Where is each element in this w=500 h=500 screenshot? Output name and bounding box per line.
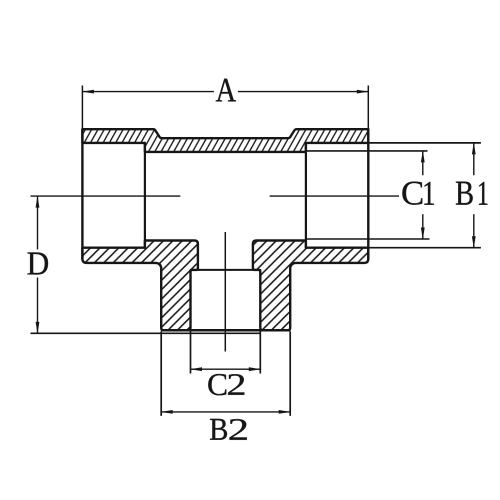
arrowhead D bottom xyxy=(36,322,40,334)
label C1-1 xyxy=(424,182,434,205)
D extension bottom xyxy=(31,332,261,334)
bottom end face xyxy=(162,329,289,332)
branch centerline xyxy=(224,232,226,352)
B2 extension lines xyxy=(160,332,162,416)
arrowhead C1 bottom xyxy=(421,228,425,240)
label C2-2 xyxy=(228,374,244,395)
A extension lines xyxy=(81,86,83,130)
arrowhead C2 left xyxy=(190,367,202,371)
B2 dimension line xyxy=(161,411,290,413)
bottom-left L section xyxy=(82,241,197,331)
arrowhead B2 right xyxy=(279,410,291,414)
C1 dimension line xyxy=(422,151,424,239)
label B2-2 xyxy=(230,419,247,440)
label A xyxy=(216,79,236,102)
label B1-1 xyxy=(479,182,487,205)
B1 extension lines xyxy=(368,142,481,144)
C2 extension lines xyxy=(190,332,192,374)
D extension top / centerline left xyxy=(31,195,181,197)
arrowhead C1 top xyxy=(421,150,425,162)
label C2-C xyxy=(208,374,226,395)
label B2-B xyxy=(210,419,227,440)
right socket shoulder xyxy=(305,143,307,248)
C1 extension lines xyxy=(306,150,428,152)
arrowhead C2 right xyxy=(249,367,261,371)
arrowhead B2 left xyxy=(161,410,173,414)
arrowhead B1 bottom xyxy=(472,236,476,248)
bottom-right L section xyxy=(253,241,368,331)
label D xyxy=(28,253,49,275)
left socket shoulder xyxy=(144,143,146,248)
branch socket shoulder xyxy=(191,269,261,271)
left end face xyxy=(81,130,83,259)
C2 dimension line xyxy=(191,368,261,370)
label B1-B xyxy=(456,182,473,205)
top wall band xyxy=(82,129,368,152)
B1 dimension line xyxy=(473,143,475,248)
arrowhead A right xyxy=(357,90,369,94)
arrowhead B1 top xyxy=(472,142,476,154)
A dimension line xyxy=(82,91,368,93)
arrowhead D top xyxy=(36,196,40,208)
D dimension line xyxy=(37,196,39,333)
centerline right xyxy=(270,195,399,197)
label C1-C xyxy=(402,182,422,205)
arrowhead A left xyxy=(82,90,94,94)
right end face xyxy=(367,130,369,259)
